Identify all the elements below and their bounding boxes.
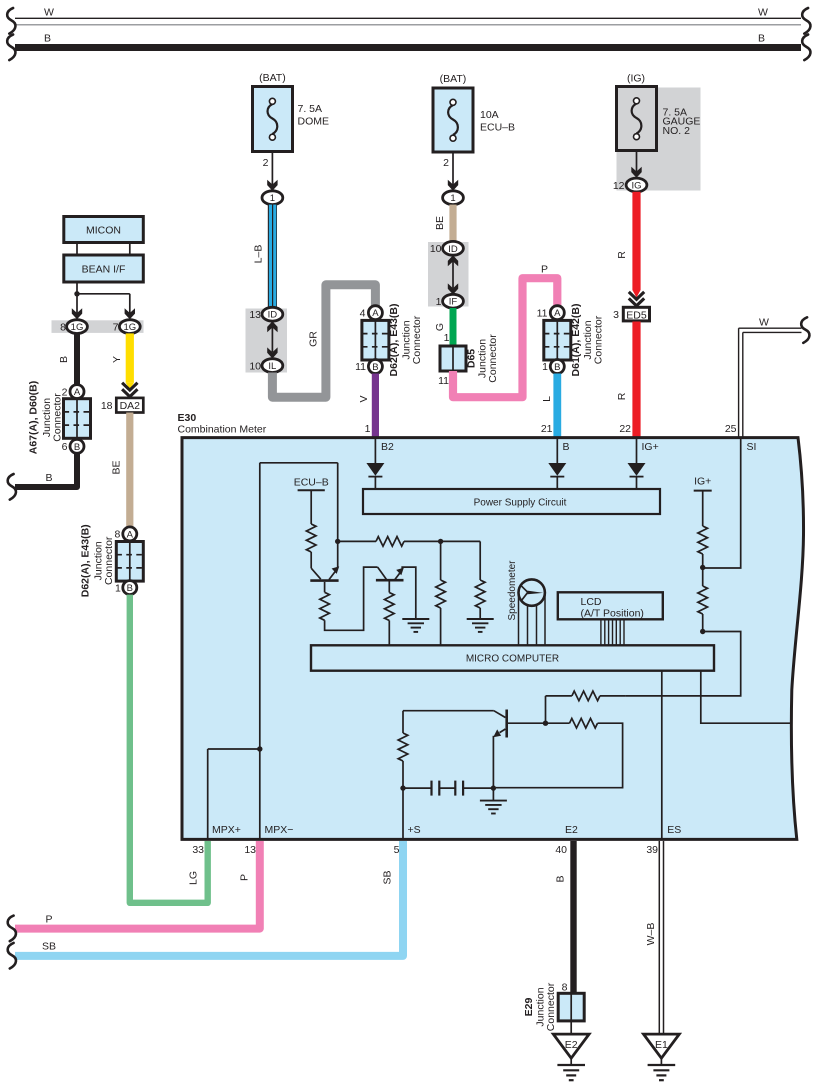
svg-text:21: 21 xyxy=(541,423,553,435)
svg-text:5: 5 xyxy=(394,844,400,856)
svg-text:10A: 10A xyxy=(480,109,499,121)
wire L-B xyxy=(253,205,278,308)
transistor Q3 xyxy=(403,710,546,801)
svg-text:P: P xyxy=(45,914,52,926)
ground symbol E2 xyxy=(557,1065,585,1080)
wire BE (upper) xyxy=(434,205,457,243)
svg-text:MPX+: MPX+ xyxy=(212,824,241,836)
svg-text:LCD: LCD xyxy=(581,596,602,608)
double chevron into DA2 xyxy=(122,383,137,397)
transistor Q2 xyxy=(376,567,416,619)
svg-text:ID: ID xyxy=(268,310,278,321)
svg-text:1: 1 xyxy=(270,193,275,204)
fuse 7.5A GAUGE NO.2 with gray background xyxy=(617,73,701,191)
svg-text:B: B xyxy=(563,441,570,453)
wire MPX- vertical with ECU-B loop top xyxy=(260,463,338,839)
svg-text:(IG): (IG) xyxy=(627,73,645,85)
svg-text:SB: SB xyxy=(382,870,394,884)
wire +S internal with resistor R11 xyxy=(398,711,408,839)
diode at IG+ xyxy=(628,438,646,489)
resistor R7 (IG+ chain upper) xyxy=(698,526,708,586)
svg-text:33: 33 xyxy=(192,844,204,856)
junction connector D65 xyxy=(438,334,499,387)
diode at B2 xyxy=(366,438,384,489)
svg-text:ED5: ED5 xyxy=(626,309,647,321)
svg-text:DOME: DOME xyxy=(298,116,330,128)
wire B to left break xyxy=(8,453,77,499)
svg-text:SB: SB xyxy=(42,941,56,953)
wire GR xyxy=(272,285,375,397)
svg-text:+S: +S xyxy=(408,824,421,836)
svg-text:W: W xyxy=(759,317,769,329)
svg-text:R: R xyxy=(616,251,628,259)
resistor R9 (horizontal, feedback) xyxy=(546,691,626,723)
ground (Q3 emitter) xyxy=(480,801,507,814)
svg-text:BE: BE xyxy=(111,460,123,474)
svg-text:B: B xyxy=(58,356,70,363)
wire break squiggles top-left xyxy=(7,8,15,60)
svg-text:ID: ID xyxy=(448,244,458,255)
svg-text:BEAN I/F: BEAN I/F xyxy=(82,264,126,276)
ground (R6) xyxy=(467,619,494,632)
svg-text:E29: E29 xyxy=(523,998,535,1017)
wire W to SI pin xyxy=(739,317,810,440)
svg-text:B: B xyxy=(554,362,560,373)
svg-text:P: P xyxy=(239,874,251,881)
svg-text:W: W xyxy=(758,7,768,19)
ground point E2 xyxy=(553,1021,589,1065)
wire P (bottom pink) xyxy=(8,841,260,941)
wire W-B xyxy=(645,841,664,1034)
svg-text:8: 8 xyxy=(60,322,66,334)
node Q3 emitter xyxy=(491,785,496,790)
svg-text:E1: E1 xyxy=(655,1039,668,1051)
svg-text:D62(A), E43(B): D62(A), E43(B) xyxy=(80,524,92,597)
node SI junction xyxy=(700,565,705,570)
wire break squiggles top-right xyxy=(802,8,810,60)
svg-text:ES: ES xyxy=(667,824,681,836)
pin 25 SI xyxy=(725,423,757,453)
svg-text:B: B xyxy=(74,442,80,453)
resistor R10 (horizontal) and loop to ground node xyxy=(496,718,623,787)
svg-text:Connector: Connector xyxy=(411,315,423,364)
connector oval 1 (ECU-B) xyxy=(443,191,464,205)
wire R (upper) xyxy=(616,192,641,298)
svg-text:3: 3 xyxy=(613,309,619,321)
wire LG xyxy=(130,595,208,903)
resistor R1 (below ECU-B) xyxy=(306,524,316,568)
resistor R4 (horizontal rail) xyxy=(338,537,481,547)
svg-text:1G: 1G xyxy=(123,322,136,333)
svg-text:4: 4 xyxy=(360,308,366,320)
node +S junction xyxy=(400,785,405,790)
svg-text:G: G xyxy=(434,323,446,331)
svg-text:W–B: W–B xyxy=(645,923,657,946)
svg-text:D61(A), E42(B): D61(A), E42(B) xyxy=(570,304,582,377)
svg-text:8: 8 xyxy=(562,982,568,994)
wire BE (lower) xyxy=(111,413,134,528)
svg-text:B: B xyxy=(758,33,765,45)
wire W (top horizontal) xyxy=(15,7,801,25)
connector oval 1G pin 7 xyxy=(113,320,141,334)
svg-text:10: 10 xyxy=(249,361,261,373)
junction connector D62(A), E43(B) (left) xyxy=(80,524,144,597)
connector oval IL pin 10 xyxy=(249,359,282,373)
svg-text:18: 18 xyxy=(101,400,113,412)
svg-text:L–B: L–B xyxy=(253,245,265,264)
double chevron into ED5 xyxy=(629,292,644,306)
svg-text:E2: E2 xyxy=(565,1039,578,1051)
wire B to E29 xyxy=(555,841,577,994)
wires BEAN I/F to 1G connectors with junction dot xyxy=(72,282,135,319)
gray band 1G/1G xyxy=(52,320,144,333)
svg-text:A: A xyxy=(372,308,379,319)
node B (rail junction) xyxy=(438,539,443,544)
svg-text:IG+: IG+ xyxy=(694,475,711,487)
svg-text:8: 8 xyxy=(114,529,120,541)
svg-text:MPX−: MPX− xyxy=(265,824,294,836)
LCD (A/T Position) box xyxy=(558,592,663,619)
node IG+ chain bottom xyxy=(700,629,705,634)
MICRO COMPUTER box xyxy=(311,645,714,670)
svg-text:2: 2 xyxy=(443,157,449,169)
fuse 7.5A DOME xyxy=(253,72,330,152)
ground symbol E1 xyxy=(648,1065,676,1080)
transistor Q1 xyxy=(310,541,339,592)
connector oval 1G pin 8 xyxy=(60,320,87,334)
svg-text:Combination Meter: Combination Meter xyxy=(178,424,267,436)
svg-text:25: 25 xyxy=(725,423,737,435)
svg-text:D62(A), E43(B): D62(A), E43(B) xyxy=(388,304,400,377)
pin 22 IG+ xyxy=(619,423,658,453)
connector ED5 pin 3 xyxy=(613,307,649,321)
svg-text:Connector: Connector xyxy=(593,315,605,364)
node MPX junction xyxy=(208,746,263,839)
svg-text:1G: 1G xyxy=(71,322,84,333)
svg-text:1: 1 xyxy=(436,296,442,308)
svg-text:22: 22 xyxy=(619,423,631,435)
connecting lines MICON to BEAN I/F xyxy=(77,243,130,256)
svg-text:MICRO COMPUTER: MICRO COMPUTER xyxy=(466,654,559,665)
junction connector D62(A), E43(B) (right) xyxy=(355,304,423,377)
svg-text:Connector: Connector xyxy=(487,334,499,383)
connector oval ID pin 10 xyxy=(430,241,464,255)
box BEAN I/F xyxy=(64,255,144,282)
svg-text:40: 40 xyxy=(555,844,567,856)
pin 2 of DOME fuse xyxy=(263,152,278,191)
capacitor C1 xyxy=(403,781,439,796)
svg-text:6: 6 xyxy=(62,441,68,453)
node Q3 base xyxy=(543,721,548,726)
wire R (lower) xyxy=(616,322,641,438)
svg-text:2: 2 xyxy=(263,157,269,169)
svg-text:1: 1 xyxy=(365,423,371,435)
junction connector E29 xyxy=(523,982,584,1031)
double arrow ID-IF xyxy=(448,255,458,294)
svg-text:13: 13 xyxy=(249,309,261,321)
pin 21 B xyxy=(541,423,570,453)
svg-text:11: 11 xyxy=(438,375,449,387)
resistor R5 (to micro computer) xyxy=(436,541,446,645)
resistor R8 (IG+ chain lower) xyxy=(698,586,708,632)
node A (Q1 emitter / rail) xyxy=(335,539,340,544)
svg-text:11: 11 xyxy=(355,361,366,373)
svg-text:Connector: Connector xyxy=(545,982,557,1031)
svg-text:12: 12 xyxy=(613,180,625,192)
svg-text:B: B xyxy=(44,33,51,45)
wire SI internal xyxy=(703,439,741,568)
svg-text:Y: Y xyxy=(111,356,123,363)
connector oval IF pin 1 xyxy=(436,294,464,308)
svg-text:A: A xyxy=(554,308,561,319)
svg-text:7. 5A: 7. 5A xyxy=(298,103,323,115)
IG+ internal supply tap xyxy=(694,475,712,526)
connector oval IG pin 12 xyxy=(613,178,647,192)
wire G xyxy=(434,308,457,346)
svg-text:V: V xyxy=(358,395,370,402)
svg-text:(BAT): (BAT) xyxy=(440,73,467,85)
ground point E1 xyxy=(644,1034,680,1065)
wire B (left column) xyxy=(58,333,80,384)
svg-text:BE: BE xyxy=(434,216,446,230)
svg-text:L: L xyxy=(541,396,553,402)
wire L xyxy=(541,374,561,439)
speedometer xyxy=(507,560,545,645)
junction connector D61(A), E42(B) xyxy=(537,304,605,377)
svg-text:39: 39 xyxy=(646,844,658,856)
svg-text:(BAT): (BAT) xyxy=(259,72,286,84)
svg-text:IL: IL xyxy=(268,361,276,372)
bottom edge pin labels xyxy=(212,824,681,836)
svg-text:B: B xyxy=(555,875,567,882)
svg-text:A: A xyxy=(74,387,81,398)
svg-text:1: 1 xyxy=(444,332,450,344)
svg-text:7: 7 xyxy=(113,322,119,334)
arrow into IG oval xyxy=(631,151,641,178)
svg-text:IF: IF xyxy=(449,297,458,308)
gray band ID/IF xyxy=(428,242,469,307)
svg-text:LG: LG xyxy=(188,871,200,885)
junction connector A67(A), D60(B) xyxy=(28,381,91,455)
capacitor C2 xyxy=(439,781,493,796)
bottom pin numbers xyxy=(192,844,658,856)
svg-text:NO. 2: NO. 2 xyxy=(663,125,691,137)
svg-text:13: 13 xyxy=(244,844,256,856)
svg-text:B: B xyxy=(45,472,52,484)
svg-text:IG+: IG+ xyxy=(642,441,659,453)
wire V xyxy=(358,374,379,439)
pin 2 of ECU-B fuse xyxy=(443,152,458,191)
wire from IG+ node to R9 xyxy=(626,632,741,696)
svg-text:Connector: Connector xyxy=(52,393,64,442)
fuse 10A ECU-B xyxy=(433,73,515,152)
svg-text:10: 10 xyxy=(430,243,442,255)
connector DA2 pin 18 xyxy=(101,398,143,413)
svg-text:W: W xyxy=(44,7,54,19)
svg-text:1: 1 xyxy=(542,361,548,373)
svg-text:E30: E30 xyxy=(178,412,197,424)
ECU-B internal supply tap xyxy=(294,477,329,525)
resistor R6 (to ground) xyxy=(475,541,485,619)
Power Supply Circuit box xyxy=(363,489,660,514)
svg-text:E2: E2 xyxy=(565,824,578,836)
diode at B xyxy=(548,438,566,489)
wire Y xyxy=(111,333,134,389)
svg-text:B: B xyxy=(127,583,133,594)
resistor R2 (Q1 base) xyxy=(320,567,386,630)
svg-text:(A/T Position): (A/T Position) xyxy=(581,608,644,620)
wire SB (bottom) xyxy=(8,841,403,969)
svg-text:A67(A), D60(B): A67(A), D60(B) xyxy=(28,381,40,455)
box MICON xyxy=(64,217,144,243)
ground (Q2 emitter) xyxy=(402,619,429,632)
wire B (top horizontal) xyxy=(15,33,801,52)
wire micro computer to right edge xyxy=(701,671,791,724)
svg-text:Connector: Connector xyxy=(103,536,115,585)
svg-text:B: B xyxy=(372,362,378,373)
E30 Combination Meter box xyxy=(178,412,804,839)
pin 1 B2 xyxy=(365,423,394,453)
resistor R3 (Q2 base) xyxy=(385,593,395,646)
svg-text:Power Supply Circuit: Power Supply Circuit xyxy=(474,498,567,509)
connector oval 1 (DOME) xyxy=(262,191,283,205)
svg-text:R: R xyxy=(616,392,628,400)
svg-text:A: A xyxy=(127,529,134,540)
wire P (upper pink) xyxy=(453,264,557,398)
LCD pin lines xyxy=(601,620,624,646)
gray band ID/IL xyxy=(246,309,288,373)
svg-text:Speedometer: Speedometer xyxy=(507,560,518,621)
connector oval ID pin 13 xyxy=(249,307,282,321)
svg-text:SI: SI xyxy=(747,441,757,453)
svg-text:B2: B2 xyxy=(381,441,394,453)
svg-text:1: 1 xyxy=(450,193,455,204)
svg-text:GR: GR xyxy=(308,331,320,347)
double arrow ID-IL xyxy=(267,321,277,358)
svg-text:DA2: DA2 xyxy=(120,400,141,412)
svg-text:IG: IG xyxy=(631,181,641,192)
svg-text:MICON: MICON xyxy=(86,225,121,237)
wire ES internal xyxy=(661,671,663,839)
svg-text:1: 1 xyxy=(115,583,121,595)
svg-text:ECU–B: ECU–B xyxy=(480,122,515,134)
svg-text:ECU–B: ECU–B xyxy=(294,477,329,489)
svg-text:11: 11 xyxy=(537,308,548,320)
svg-text:P: P xyxy=(541,264,548,276)
